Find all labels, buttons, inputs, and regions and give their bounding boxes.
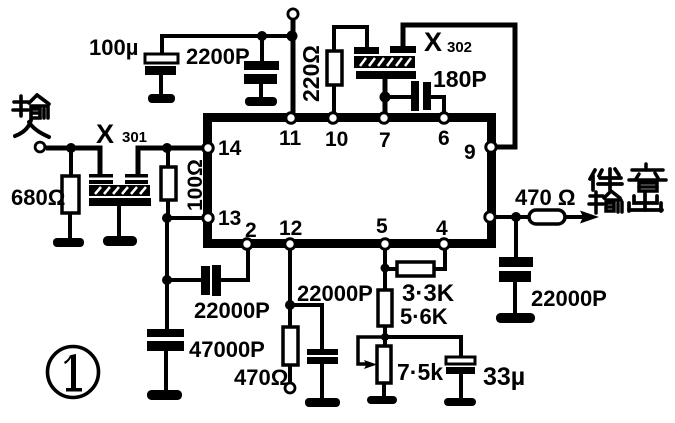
svg-text:7: 7 (379, 129, 391, 152)
pin 10 (328, 113, 338, 123)
svg-text:100µ: 100µ (89, 35, 138, 60)
pin 11 (286, 113, 296, 123)
resistor 470 ohm bottom (283, 327, 298, 365)
svg-text:4: 4 (436, 217, 448, 240)
pin 5 (380, 239, 390, 249)
capacitor 180P (411, 81, 431, 111)
wire top rail to 100u (162, 36, 293, 56)
wire top terminal to pin 11 (291, 19, 296, 118)
svg-text:X: X (424, 27, 442, 57)
svg-text:470 Ω: 470 Ω (515, 185, 575, 210)
svg-text:22000P: 22000P (194, 298, 270, 323)
ceramic filter X302 (354, 46, 416, 79)
ground 2200P (245, 97, 277, 106)
ground 100u (148, 94, 175, 103)
svg-text:47000P: 47000P (189, 337, 265, 362)
svg-text:33µ: 33µ (483, 363, 525, 391)
potentiometer 7.5K (377, 346, 391, 383)
wire 2200P top lead (260, 36, 264, 62)
svg-text:470Ω: 470Ω (234, 365, 288, 390)
wire X302 to pin 7 (383, 79, 388, 114)
wire X302 right cap to pin 9 (403, 25, 515, 147)
junction pot node (381, 333, 389, 341)
svg-text:2: 2 (245, 219, 257, 242)
capacitor 2200P (244, 61, 279, 84)
junction pin12 node (285, 300, 295, 310)
svg-text:9: 9 (464, 141, 476, 164)
svg-text:22000P: 22000P (297, 281, 373, 306)
wire 5.6K to pot (383, 326, 387, 347)
wire C 33u to ground (459, 373, 463, 400)
wire 100 ohm top lead (166, 148, 170, 167)
pin 12 (285, 239, 295, 249)
wire 220 ohm top to X302 left cap (334, 27, 367, 53)
pin 9 (486, 142, 496, 152)
wire C 22000P to pin 2 (221, 246, 248, 280)
value label X301 (96, 119, 147, 149)
wire input to X301 left cap (46, 148, 100, 174)
svg-text:5·6K: 5·6K (400, 304, 448, 329)
wire node to C 22000P mid (290, 305, 322, 350)
svg-text:X: X (96, 119, 114, 149)
terminal top supply (288, 9, 298, 19)
junction top rail node (287, 31, 298, 42)
label output chinese ban (590, 169, 622, 190)
svg-text:220Ω: 220Ω (298, 45, 324, 102)
svg-text:22000P: 22000P (531, 286, 607, 311)
wire right pin to R 470 (496, 215, 530, 219)
wire to pin 13 (166, 216, 205, 220)
wire X301 to ground (117, 206, 121, 238)
label input chinese shu (13, 95, 49, 118)
ground potentiometer (367, 396, 397, 404)
capacitor 100u (145, 54, 178, 75)
junction 2200P node (257, 31, 267, 41)
IC U1 body (208, 118, 492, 244)
svg-text:5: 5 (376, 215, 388, 238)
junction C22000P node (162, 275, 172, 285)
svg-text:302: 302 (447, 39, 472, 56)
pin 4 (439, 239, 449, 249)
wire pot wiper (358, 337, 383, 369)
capacitor 33u (446, 357, 475, 374)
svg-text:301: 301 (122, 129, 147, 146)
junction pin5 node (381, 264, 390, 273)
svg-text:2200P: 2200P (186, 44, 250, 69)
capacitor 22000P right (499, 257, 533, 282)
junction input node (66, 143, 76, 153)
resistor 470 ohm right (529, 210, 565, 224)
pin 6 (439, 113, 449, 123)
figure number 1 (48, 347, 99, 398)
svg-text:180P: 180P (433, 66, 487, 92)
terminal input (35, 142, 45, 152)
wire node to 3.3K left (385, 267, 398, 271)
wire 2200P to ground (259, 84, 263, 100)
wire C 180P to pin 6 (430, 97, 444, 114)
ceramic filter X301 (89, 174, 151, 206)
pin 7 (379, 113, 389, 123)
svg-text:3·3K: 3·3K (402, 280, 455, 307)
wire 680 ohm to ground (68, 213, 72, 239)
resistor 5.6K (378, 290, 392, 326)
wire C 47000P to ground (164, 351, 168, 393)
pin 14 (203, 143, 213, 153)
wire C 22000P mid to ground (320, 364, 324, 400)
wire node to C 180P (385, 95, 412, 99)
capacitor 22000P mid (307, 349, 338, 364)
pin 2 (242, 239, 252, 249)
svg-text:6: 6 (438, 127, 450, 150)
junction output node (511, 212, 521, 222)
junction pin13 node (162, 213, 172, 223)
value label X302 (424, 27, 472, 57)
wire node to C 22000P left (167, 278, 201, 282)
label input chinese ru (15, 120, 49, 137)
wire 680 ohm branch (69, 146, 73, 176)
capacitor 47000P (147, 329, 184, 351)
resistor 220 ohm (327, 51, 342, 85)
resistor 100 ohm (161, 167, 176, 200)
ground 680 ohm (53, 238, 84, 247)
wire 220 ohm bottom to pin 10 (332, 85, 336, 114)
wire pin 5 down to 5.6K (383, 246, 387, 291)
svg-text:14: 14 (218, 137, 242, 160)
resistor 3.3K (397, 262, 434, 276)
label output chinese yin (629, 164, 666, 191)
ground 22000P mid (305, 398, 340, 407)
pin right lower (485, 212, 495, 222)
svg-text:11: 11 (279, 127, 302, 150)
wire node down to C 22000P right (514, 217, 518, 258)
wire node down to C 47000P (165, 278, 169, 330)
svg-text:10: 10 (325, 128, 348, 151)
wire 3.3K right to pin 4 (434, 246, 445, 269)
junction X302 node (380, 92, 391, 103)
capacitor 22000P left (201, 265, 221, 296)
label output chinese shu2 (589, 191, 622, 213)
wire pin 12 down (288, 246, 292, 328)
terminal 470 ohm bottom (285, 383, 295, 393)
wire output arrow (565, 211, 599, 224)
svg-text:100Ω: 100Ω (184, 159, 207, 211)
wire X301 right cap to pin 14 (138, 148, 205, 174)
wire 100u to ground (159, 75, 163, 96)
wire R 470 bottom to terminal (288, 365, 292, 384)
ground X301 (103, 236, 137, 246)
svg-text:680Ω: 680Ω (11, 185, 65, 210)
wire node to C 33u (385, 337, 461, 358)
svg-text:13: 13 (218, 207, 241, 230)
wire 100 ohm bottom lead (166, 200, 170, 218)
pin 13 (203, 213, 213, 223)
wire 100 ohm down to node (165, 216, 169, 280)
ground 22000P right (496, 313, 535, 323)
label output chinese chu (629, 192, 662, 211)
svg-text:12: 12 (279, 217, 302, 240)
resistor 680 ohm (62, 176, 79, 213)
wire C 22000P right to ground (513, 282, 517, 316)
junction pin14 node (162, 143, 172, 153)
wire pot to ground (382, 383, 386, 398)
ground 33u (444, 398, 476, 406)
ground 47000P (147, 390, 182, 400)
svg-text:7·5k: 7·5k (397, 359, 443, 385)
